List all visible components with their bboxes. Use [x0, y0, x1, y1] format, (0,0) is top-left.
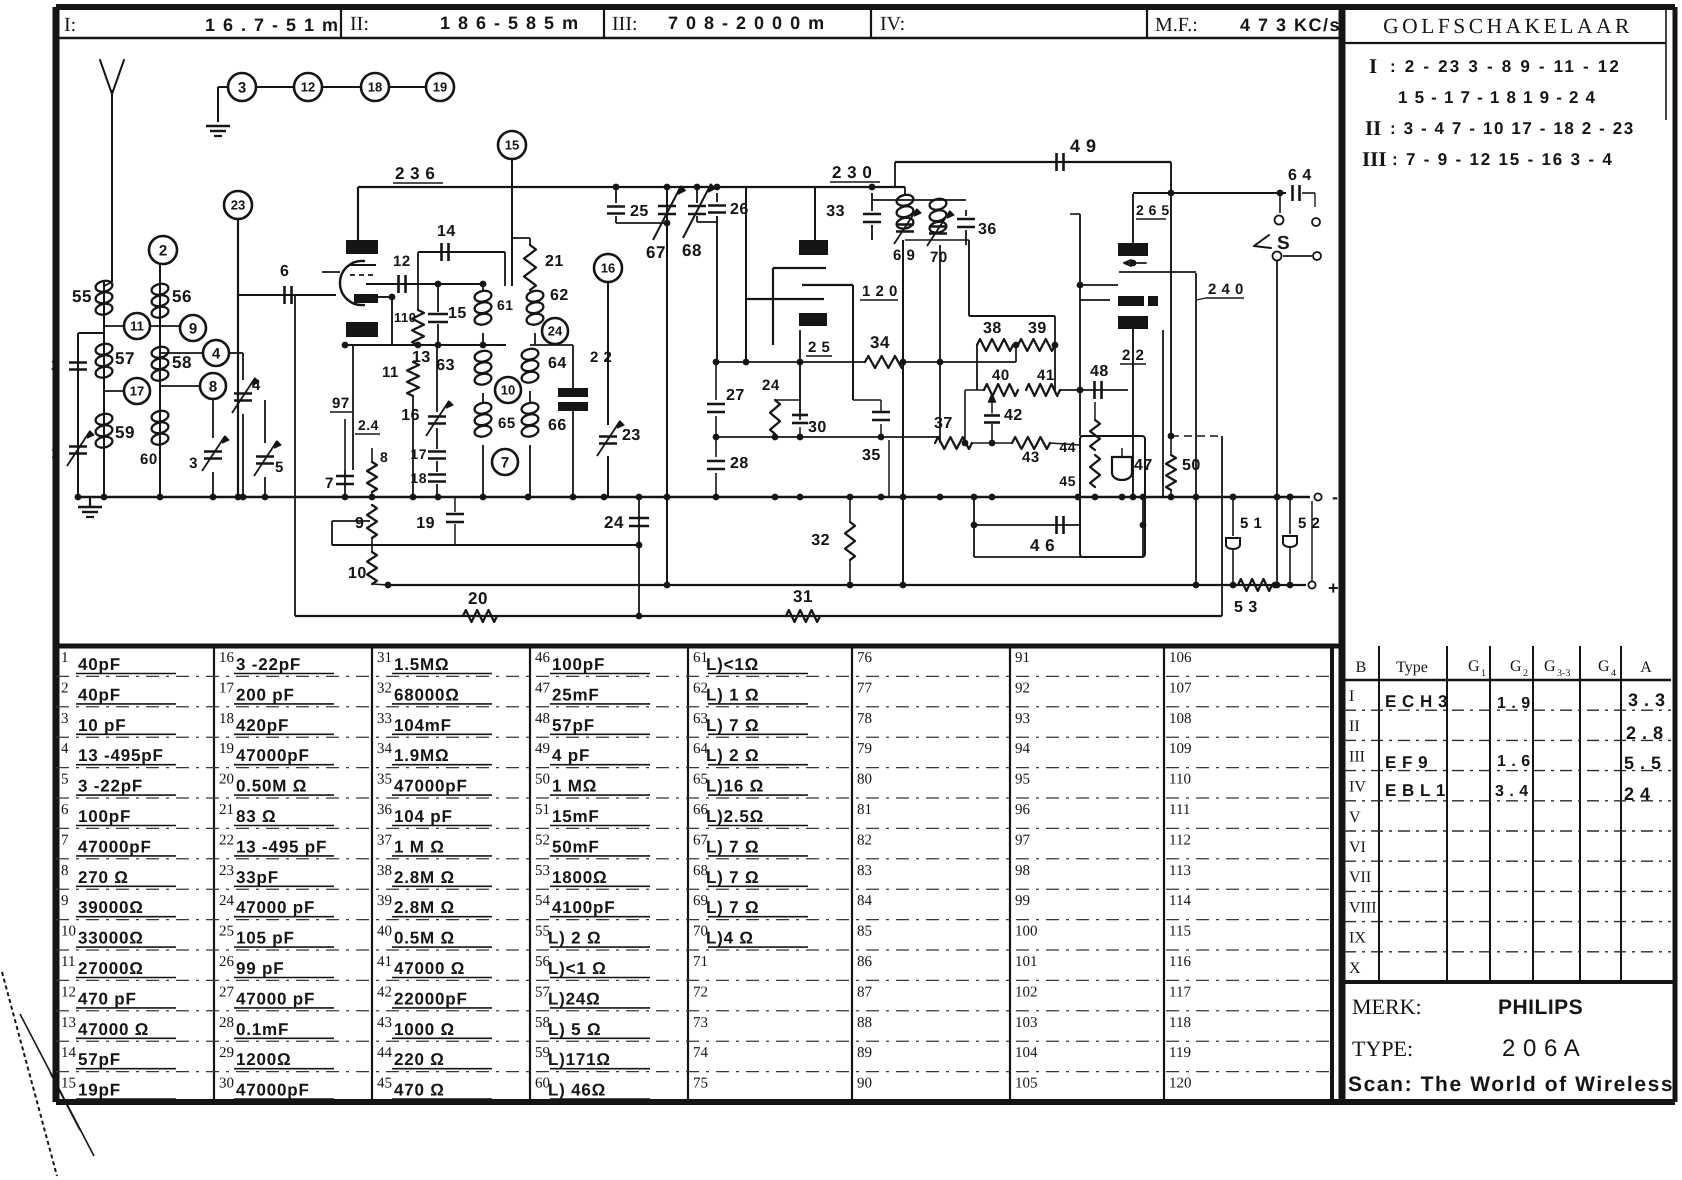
svg-text:100pF: 100pF [78, 807, 131, 826]
svg-text:II: II [1365, 116, 1381, 140]
svg-text:53: 53 [535, 863, 550, 879]
svg-text:18: 18 [219, 711, 234, 727]
svg-text:97: 97 [332, 395, 350, 412]
svg-text:2: 2 [51, 357, 60, 374]
svg-text:52: 52 [535, 832, 550, 848]
svg-text:7: 7 [501, 454, 509, 471]
svg-text:4: 4 [252, 377, 261, 394]
svg-text:117: 117 [1169, 984, 1191, 1000]
svg-text:40pF: 40pF [78, 685, 121, 704]
svg-text:16: 16 [401, 407, 420, 424]
svg-text:38: 38 [983, 320, 1002, 337]
svg-text:23: 23 [622, 427, 641, 444]
svg-text:82: 82 [857, 832, 872, 848]
svg-text:51: 51 [535, 802, 550, 818]
svg-text:3 -22pF: 3 -22pF [78, 777, 143, 796]
svg-text:110: 110 [1169, 772, 1191, 788]
svg-text:54: 54 [535, 893, 551, 909]
svg-text:Scan: The World of Wireless: Scan: The World of Wireless [1348, 1073, 1674, 1096]
svg-text:47000pF: 47000pF [394, 777, 468, 796]
svg-text:24: 24 [219, 893, 235, 909]
svg-text:111: 111 [1169, 802, 1190, 818]
svg-text:36: 36 [978, 221, 997, 238]
svg-text:73: 73 [693, 1015, 708, 1031]
svg-text:80: 80 [857, 772, 872, 788]
svg-text:12: 12 [61, 984, 76, 1000]
svg-text:28: 28 [730, 455, 749, 472]
svg-text:3: 3 [238, 79, 246, 96]
svg-text:81: 81 [857, 802, 872, 818]
svg-text:11: 11 [382, 364, 399, 381]
svg-text:-: - [1332, 487, 1339, 507]
svg-text:23: 23 [231, 198, 245, 213]
svg-text:L)<1 Ω: L)<1 Ω [548, 959, 607, 978]
svg-text:57pF: 57pF [552, 716, 595, 735]
svg-text:1800Ω: 1800Ω [552, 868, 607, 887]
svg-text:84: 84 [857, 893, 873, 909]
svg-text:B: B [1356, 659, 1367, 676]
svg-text:16: 16 [219, 650, 235, 666]
svg-text:105: 105 [1015, 1076, 1038, 1092]
svg-text:91: 91 [1015, 650, 1030, 666]
svg-text:47: 47 [535, 680, 551, 696]
svg-text:: 7 - 9 - 12 15 - 16 3 - 4: : 7 - 9 - 12 15 - 16 3 - 4 [1392, 150, 1614, 169]
svg-text:37: 37 [377, 832, 393, 848]
svg-text:42: 42 [1004, 407, 1023, 424]
svg-text:104mF: 104mF [394, 716, 452, 735]
svg-text:9: 9 [61, 893, 69, 909]
svg-text:62: 62 [550, 287, 569, 304]
svg-text:7: 7 [61, 832, 69, 848]
svg-text:2.4: 2.4 [358, 417, 379, 433]
svg-text:1: 1 [51, 445, 60, 462]
svg-text:L) 46Ω: L) 46Ω [548, 1081, 606, 1100]
svg-text:S: S [1277, 233, 1290, 254]
svg-text:15: 15 [505, 138, 519, 153]
svg-text:19: 19 [416, 515, 435, 532]
svg-text:27000Ω: 27000Ω [78, 959, 144, 978]
svg-text:9: 9 [189, 320, 197, 337]
svg-text:L) 5 Ω: L) 5 Ω [548, 1020, 601, 1039]
svg-text:III: III [1349, 748, 1365, 765]
svg-text:4100pF: 4100pF [552, 898, 615, 917]
svg-text:13: 13 [61, 1015, 76, 1031]
svg-text:77: 77 [857, 680, 873, 696]
svg-text:30: 30 [219, 1076, 234, 1092]
svg-text:85: 85 [857, 924, 872, 940]
svg-text:18: 18 [410, 470, 427, 486]
svg-text:83: 83 [857, 863, 872, 879]
svg-text:L)24Ω: L)24Ω [548, 989, 601, 1008]
svg-text:1.5MΩ: 1.5MΩ [394, 655, 449, 674]
svg-text:2: 2 [61, 680, 69, 696]
svg-text:27: 27 [726, 387, 745, 404]
svg-text:35: 35 [862, 447, 881, 464]
svg-text:M.F.:: M.F.: [1155, 14, 1198, 36]
svg-text:V: V [1349, 809, 1361, 826]
svg-text:39000Ω: 39000Ω [78, 898, 144, 917]
svg-text:14: 14 [437, 223, 456, 240]
svg-text:1 2 0: 1 2 0 [862, 283, 898, 300]
svg-text:34: 34 [870, 333, 890, 352]
svg-text:19: 19 [433, 80, 447, 95]
svg-text:48: 48 [535, 711, 550, 727]
svg-text:470 pF: 470 pF [78, 989, 137, 1008]
svg-text:64: 64 [548, 355, 567, 372]
svg-text:III:: III: [612, 13, 638, 35]
svg-text:50: 50 [1182, 457, 1201, 474]
svg-text:103: 103 [1015, 1015, 1038, 1031]
svg-text:2 2: 2 2 [1122, 347, 1144, 364]
svg-text:2 6 5: 2 6 5 [1136, 202, 1170, 218]
svg-text:8: 8 [209, 378, 217, 395]
svg-text:40: 40 [992, 367, 1010, 384]
svg-text:10 pF: 10 pF [78, 716, 126, 735]
svg-text:VII: VII [1349, 869, 1371, 886]
svg-text:39: 39 [1028, 320, 1047, 337]
svg-text:105 pF: 105 pF [236, 929, 295, 948]
svg-text:L) 1 Ω: L) 1 Ω [706, 685, 759, 704]
svg-text:0.5M Ω: 0.5M Ω [394, 929, 455, 948]
svg-text:2 . 8: 2 . 8 [1626, 723, 1664, 743]
svg-text:7: 7 [325, 475, 334, 492]
svg-text:220 Ω: 220 Ω [394, 1050, 445, 1069]
svg-text:12: 12 [393, 253, 411, 270]
svg-text:24: 24 [548, 324, 563, 339]
svg-text:1000 Ω: 1000 Ω [394, 1020, 455, 1039]
svg-text:94: 94 [1015, 741, 1031, 757]
svg-text:37: 37 [934, 415, 953, 432]
svg-text:3: 3 [61, 711, 69, 727]
svg-text:22: 22 [219, 832, 234, 848]
svg-text:10: 10 [501, 383, 515, 398]
svg-text:200 pF: 200 pF [236, 685, 295, 704]
svg-text:79: 79 [857, 741, 872, 757]
svg-text:108: 108 [1169, 711, 1192, 727]
svg-text:47000 Ω: 47000 Ω [78, 1020, 149, 1039]
svg-text:109: 109 [1169, 741, 1192, 757]
svg-text:4: 4 [1611, 668, 1616, 679]
svg-text:44: 44 [377, 1045, 393, 1061]
svg-text:L)4 Ω: L)4 Ω [706, 929, 754, 948]
svg-text:112: 112 [1169, 832, 1191, 848]
svg-text:102: 102 [1015, 984, 1038, 1000]
svg-text:2: 2 [1523, 668, 1528, 679]
svg-text:L) 2 Ω: L) 2 Ω [548, 929, 601, 948]
svg-text:G: G [1544, 658, 1556, 675]
svg-text:76: 76 [857, 650, 873, 666]
svg-text:104: 104 [1015, 1045, 1038, 1061]
svg-text:58: 58 [172, 353, 192, 372]
svg-text:47000pF: 47000pF [236, 746, 310, 765]
svg-text:2 4: 2 4 [1624, 784, 1651, 804]
svg-text:20: 20 [219, 772, 234, 788]
svg-text:1 M Ω: 1 M Ω [394, 837, 445, 856]
svg-text:40pF: 40pF [78, 655, 121, 674]
svg-text:78: 78 [857, 711, 872, 727]
svg-text:1 . 9: 1 . 9 [1497, 695, 1531, 712]
svg-text:99 pF: 99 pF [236, 959, 284, 978]
svg-text:25: 25 [630, 203, 649, 220]
svg-text:99: 99 [1015, 893, 1030, 909]
svg-text:101: 101 [1015, 954, 1038, 970]
svg-text:65: 65 [498, 415, 516, 432]
svg-text:21: 21 [545, 253, 564, 270]
svg-text:G: G [1598, 658, 1610, 675]
svg-text:1: 1 [1481, 668, 1486, 679]
svg-text:L) 7 Ω: L) 7 Ω [706, 868, 759, 887]
svg-text:63: 63 [436, 357, 455, 374]
svg-text:5 2: 5 2 [1298, 515, 1320, 532]
svg-text:47000 pF: 47000 pF [236, 989, 315, 1008]
svg-text:3: 3 [189, 455, 198, 472]
svg-text:A: A [1640, 659, 1652, 676]
svg-text:15mF: 15mF [552, 807, 600, 826]
svg-text:50mF: 50mF [552, 837, 600, 856]
svg-text:1.9MΩ: 1.9MΩ [394, 746, 449, 765]
svg-text:41: 41 [1037, 367, 1055, 384]
svg-text:68000Ω: 68000Ω [394, 685, 460, 704]
svg-text:50: 50 [535, 772, 550, 788]
svg-text:2: 2 [159, 242, 167, 259]
svg-text:47000pF: 47000pF [236, 1081, 310, 1100]
svg-text:57: 57 [115, 349, 135, 368]
svg-text:89: 89 [857, 1045, 872, 1061]
svg-text:41: 41 [377, 954, 392, 970]
svg-text:6: 6 [61, 802, 69, 818]
svg-text:3 -22pF: 3 -22pF [236, 655, 301, 674]
svg-text:42: 42 [377, 984, 392, 1000]
svg-text:31: 31 [793, 587, 813, 606]
svg-text:5 3: 5 3 [1234, 599, 1258, 616]
svg-text:9: 9 [355, 515, 364, 532]
svg-text:67: 67 [646, 243, 666, 262]
svg-text:6 4: 6 4 [1288, 167, 1312, 184]
svg-text:1: 1 [61, 650, 69, 666]
svg-text:X: X [1349, 960, 1361, 977]
svg-text:75: 75 [693, 1076, 708, 1092]
svg-text:PHILIPS: PHILIPS [1498, 996, 1583, 1019]
svg-text:49: 49 [535, 741, 550, 757]
svg-text:16: 16 [601, 261, 615, 276]
svg-text:7 0 8 - 2 0 0 0 m: 7 0 8 - 2 0 0 0 m [668, 13, 826, 33]
svg-text:104 pF: 104 pF [394, 807, 453, 826]
svg-text:1 5 - 1 7 - 1 8 1 9 - 2 4: 1 5 - 1 7 - 1 8 1 9 - 2 4 [1398, 88, 1596, 107]
svg-text:32: 32 [377, 680, 392, 696]
svg-text:46: 46 [535, 650, 551, 666]
svg-text:11: 11 [61, 954, 75, 970]
svg-text:MERK:: MERK: [1352, 994, 1422, 1019]
svg-text:33pF: 33pF [236, 868, 279, 887]
svg-text:2 0 6 A: 2 0 6 A [1502, 1035, 1580, 1062]
svg-text:21: 21 [219, 802, 234, 818]
svg-text:33: 33 [826, 203, 845, 220]
svg-text:IV: IV [1349, 779, 1366, 796]
svg-text:E F 9: E F 9 [1385, 753, 1428, 772]
svg-text:17: 17 [410, 446, 427, 462]
svg-text:88: 88 [857, 1015, 872, 1031]
svg-text:59: 59 [115, 423, 135, 442]
svg-text:48: 48 [1090, 363, 1109, 380]
svg-text:23: 23 [219, 863, 234, 879]
svg-text:24: 24 [762, 377, 780, 394]
svg-text:G: G [1468, 658, 1480, 675]
svg-text:12: 12 [301, 80, 315, 95]
svg-text:17: 17 [219, 680, 235, 696]
svg-text:43: 43 [377, 1015, 392, 1031]
svg-text:2 5: 2 5 [808, 339, 830, 356]
svg-text:15: 15 [61, 1076, 76, 1092]
svg-text:4: 4 [212, 345, 221, 362]
svg-text:71: 71 [693, 954, 708, 970]
svg-text:5 1: 5 1 [1240, 515, 1262, 532]
svg-text:87: 87 [857, 984, 873, 1000]
svg-text:40: 40 [377, 924, 392, 940]
svg-text:28: 28 [219, 1015, 234, 1031]
svg-text:8: 8 [380, 449, 388, 465]
svg-text:E C H 3: E C H 3 [1385, 692, 1448, 711]
svg-text:L) 2 Ω: L) 2 Ω [706, 746, 759, 765]
svg-text:33: 33 [377, 711, 392, 727]
svg-text:116: 116 [1169, 954, 1191, 970]
svg-text:110: 110 [394, 310, 416, 325]
svg-text:VIII: VIII [1349, 899, 1377, 916]
svg-text:27: 27 [219, 984, 235, 1000]
svg-text:IX: IX [1349, 930, 1366, 947]
svg-text:TYPE:: TYPE: [1352, 1036, 1413, 1061]
svg-text:86: 86 [857, 954, 873, 970]
svg-text:70: 70 [930, 249, 948, 266]
svg-text:10: 10 [61, 924, 76, 940]
svg-text:98: 98 [1015, 863, 1030, 879]
svg-text:29: 29 [219, 1045, 234, 1061]
svg-text:44: 44 [1059, 439, 1076, 455]
svg-text:II: II [1349, 718, 1360, 735]
svg-text:18: 18 [368, 80, 382, 95]
svg-text:I: I [1349, 688, 1354, 705]
svg-text:97: 97 [1015, 832, 1031, 848]
svg-text:GOLFSCHAKELAAR: GOLFSCHAKELAAR [1383, 14, 1633, 38]
svg-text:61: 61 [497, 297, 514, 313]
svg-text:2 3 6: 2 3 6 [395, 164, 435, 183]
svg-text:E B L 1: E B L 1 [1385, 781, 1446, 800]
svg-text:VI: VI [1349, 839, 1366, 856]
svg-text:L)<1Ω: L)<1Ω [706, 655, 759, 674]
svg-text:2.8M Ω: 2.8M Ω [394, 898, 455, 917]
svg-text:43: 43 [1022, 449, 1040, 466]
svg-text:: 2 - 23 3 - 8 9 - 11 - 12: : 2 - 23 3 - 8 9 - 11 - 12 [1390, 57, 1621, 76]
svg-text:2 3 0: 2 3 0 [832, 163, 872, 182]
svg-text:20: 20 [468, 589, 488, 608]
svg-text:4 7 3 KC/s: 4 7 3 KC/s [1240, 15, 1341, 35]
svg-text:60: 60 [140, 451, 158, 468]
svg-text:113: 113 [1169, 863, 1191, 879]
svg-text:95: 95 [1015, 772, 1030, 788]
svg-text:L) 7 Ω: L) 7 Ω [706, 898, 759, 917]
svg-text:22000pF: 22000pF [394, 989, 468, 1008]
svg-text:25mF: 25mF [552, 685, 600, 704]
svg-text:25: 25 [219, 924, 234, 940]
svg-text:270 Ω: 270 Ω [78, 868, 129, 887]
svg-text:6 9: 6 9 [893, 247, 915, 264]
svg-text:38: 38 [377, 863, 392, 879]
svg-text:4 9: 4 9 [1070, 136, 1097, 156]
svg-text:13 -495pF: 13 -495pF [78, 746, 164, 765]
svg-text:118: 118 [1169, 1015, 1191, 1031]
svg-text:90: 90 [857, 1076, 872, 1092]
svg-text:L)171Ω: L)171Ω [548, 1050, 611, 1069]
svg-text:1 MΩ: 1 MΩ [552, 777, 597, 796]
svg-text:5: 5 [61, 772, 69, 788]
svg-text:10: 10 [348, 565, 367, 582]
svg-text:32: 32 [811, 532, 830, 549]
svg-text:1200Ω: 1200Ω [236, 1050, 291, 1069]
svg-text:420pF: 420pF [236, 716, 289, 735]
svg-text:4: 4 [61, 741, 69, 757]
svg-text:72: 72 [693, 984, 708, 1000]
svg-text:120: 120 [1169, 1076, 1192, 1092]
svg-text:56: 56 [172, 287, 192, 306]
svg-text:26: 26 [219, 954, 235, 970]
svg-text:I: I [1369, 54, 1377, 78]
svg-text:55: 55 [72, 287, 92, 306]
svg-text:68: 68 [682, 241, 702, 260]
svg-text:39: 39 [377, 893, 392, 909]
svg-text:17: 17 [130, 384, 144, 399]
svg-text:31: 31 [377, 650, 392, 666]
svg-text:: 3 - 4 7 - 10 17 - 18 2 -: : 3 - 4 7 - 10 17 - 18 2 - 23 [1390, 119, 1635, 138]
svg-text:93: 93 [1015, 711, 1030, 727]
svg-text:5 . 5: 5 . 5 [1624, 753, 1662, 773]
svg-text:4 pF: 4 pF [552, 746, 590, 765]
svg-text:II:: II: [350, 13, 369, 35]
svg-text:8: 8 [61, 863, 69, 879]
svg-text:92: 92 [1015, 680, 1030, 696]
svg-text:34: 34 [377, 741, 393, 757]
svg-text:I:: I: [64, 14, 76, 36]
svg-text:36: 36 [377, 802, 393, 818]
svg-text:11: 11 [130, 319, 144, 334]
svg-text:14: 14 [61, 1045, 77, 1061]
svg-text:1 6 . 7 - 5 1 m: 1 6 . 7 - 5 1 m [205, 15, 340, 35]
svg-text:57pF: 57pF [78, 1050, 121, 1069]
svg-text:4 6: 4 6 [1030, 536, 1055, 555]
svg-text:24: 24 [604, 513, 624, 532]
svg-text:35: 35 [377, 772, 392, 788]
svg-text:3 . 4: 3 . 4 [1495, 783, 1529, 800]
svg-text:45: 45 [377, 1076, 392, 1092]
svg-text:19: 19 [219, 741, 234, 757]
svg-text:47000 pF: 47000 pF [236, 898, 315, 917]
svg-text:L) 7 Ω: L) 7 Ω [706, 716, 759, 735]
svg-text:115: 115 [1169, 924, 1191, 940]
svg-text:6: 6 [280, 263, 289, 280]
svg-text:47000 Ω: 47000 Ω [394, 959, 465, 978]
svg-text:83 Ω: 83 Ω [236, 807, 276, 826]
svg-text:L) 7 Ω: L) 7 Ω [706, 837, 759, 856]
svg-text:100pF: 100pF [552, 655, 605, 674]
svg-text:106: 106 [1169, 650, 1192, 666]
svg-text:5: 5 [275, 459, 284, 476]
svg-text:2 2: 2 2 [590, 349, 612, 366]
svg-text:+: + [1328, 578, 1339, 598]
svg-text:19pF: 19pF [78, 1081, 121, 1100]
svg-text:47: 47 [1134, 457, 1153, 474]
svg-text:1 8 6 - 5 8 5 m: 1 8 6 - 5 8 5 m [440, 13, 580, 33]
svg-text:45: 45 [1059, 473, 1076, 489]
svg-text:66: 66 [548, 417, 567, 434]
svg-text:119: 119 [1169, 1045, 1191, 1061]
